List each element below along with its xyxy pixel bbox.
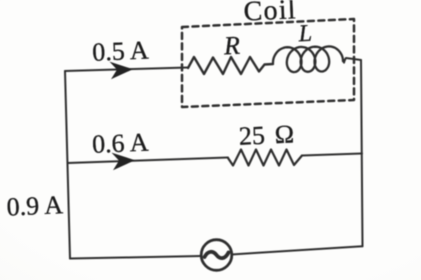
- svg-text:25 Ω: 25 Ω: [238, 119, 295, 150]
- svg-text:Coil: Coil: [243, 0, 297, 27]
- svg-text:0.5 A: 0.5 A: [92, 35, 150, 66]
- svg-text:L: L: [297, 21, 312, 48]
- svg-text:0.9 A: 0.9 A: [6, 190, 64, 221]
- svg-text:0.6 A: 0.6 A: [91, 128, 149, 159]
- svg-text:R: R: [222, 31, 240, 61]
